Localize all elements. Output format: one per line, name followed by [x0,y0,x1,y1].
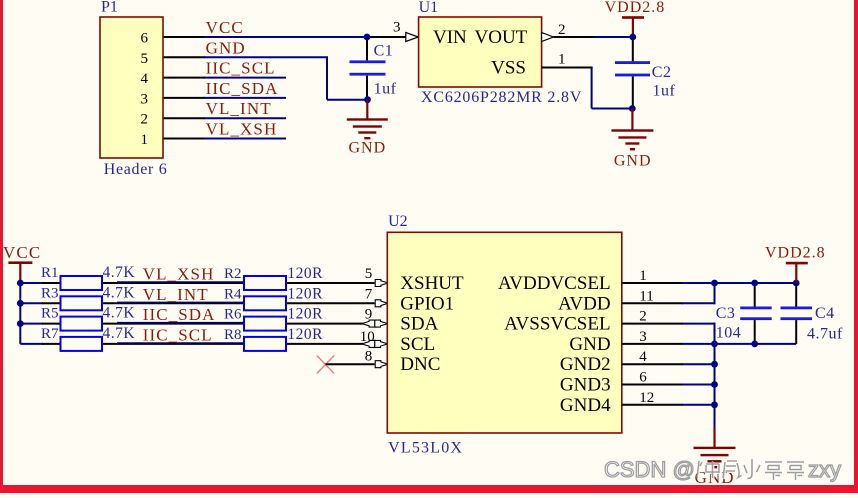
wire U2 pin2 AVSSVCSEL [622,323,715,325]
pin arrow out of U1 VOUT [542,33,554,42]
wire U2 pin3 GND rail [622,343,796,345]
svg-text:4: 4 [639,349,647,365]
svg-text:R8: R8 [224,327,242,343]
wire P1.4 IIC_SCL net [163,77,286,79]
svg-text:4.7K: 4.7K [103,305,136,322]
svg-text:1uf: 1uf [653,83,676,100]
svg-text:5: 5 [365,266,373,282]
frame right [854,0,858,493]
wire row2 VL_INT [20,302,374,303]
ground symbol bottom right [694,428,736,487]
capacitor C2 [615,37,676,109]
svg-text:VOUT: VOUT [475,27,528,48]
no connect X (DNC) [317,356,334,374]
wire AVDD up-bend to AVDDVCSEL rail [714,282,716,304]
svg-text:2: 2 [639,309,647,325]
svg-text:4.7K: 4.7K [103,284,136,301]
resistor R3 [41,285,102,310]
svg-text:5: 5 [141,51,149,67]
svg-text:VSS: VSS [491,58,526,79]
wire P1.3 IIC_SDA net [163,97,286,99]
svg-text:1: 1 [558,52,566,68]
svg-text:R3: R3 [41,285,59,301]
svg-text:C4: C4 [815,305,835,322]
svg-text:U2: U2 [388,213,408,230]
svg-text:P1: P1 [101,0,118,16]
svg-text:U1: U1 [419,0,439,16]
svg-text:3: 3 [639,329,647,345]
svg-text:VL_XSH: VL_XSH [206,120,278,139]
svg-text:3: 3 [141,91,149,107]
node junction rail row3 [17,320,24,327]
resistor R7 [41,326,102,351]
wire row4 IIC_SCL [20,343,363,344]
svg-text:7: 7 [365,286,373,302]
svg-text:11: 11 [639,288,653,304]
wire AVSSVCSEL down-bend to ground rail [714,323,716,429]
svg-text:VIN: VIN [433,27,467,48]
pin arrow U2 SDA (bidirectional) [362,320,388,327]
svg-text:R1: R1 [41,265,59,281]
capacitor C1 [350,37,397,100]
svg-text:XC6206P282MR 2.8V: XC6206P282MR 2.8V [421,89,582,106]
svg-text:AVDD: AVDD [558,293,610,314]
svg-text:2: 2 [141,112,149,128]
svg-text:VL53L0X: VL53L0X [388,440,463,457]
svg-text:4.7uf: 4.7uf [807,326,843,343]
pin arrow U2 SCL (bidirectional) [362,340,388,347]
svg-text:VL_INT: VL_INT [206,99,272,118]
svg-text:GND: GND [206,38,246,57]
svg-text:VL_INT: VL_INT [143,285,209,304]
wire P1.2 VL_INT net [163,117,286,119]
svg-text:XSHUT: XSHUT [400,273,464,294]
svg-text:GND: GND [569,334,610,355]
connector P1 [100,0,167,178]
svg-text:GPIO1: GPIO1 [400,293,454,314]
svg-text:IIC_SCL: IIC_SCL [143,325,213,344]
resistor R2 [224,266,286,290]
svg-text:VDD2.8: VDD2.8 [605,0,666,16]
svg-text:1: 1 [639,268,647,284]
pin arrow into U1 VIN [406,33,419,42]
svg-text:R2: R2 [224,266,242,282]
svg-text:R4: R4 [224,286,242,302]
svg-text:120R: 120R [287,306,323,323]
svg-text:DNC: DNC [400,354,440,375]
svg-text:2: 2 [558,22,566,38]
svg-text:C1: C1 [374,42,394,59]
node junction C2 bottom [629,105,636,112]
wire row5 DNC [325,363,374,365]
wire VCC rail vertical [19,283,21,344]
svg-text:C3: C3 [716,305,736,322]
node junction C1 top [364,34,371,41]
svg-text:VDD2.8: VDD2.8 [765,245,826,262]
node junction rail row1 [17,280,24,287]
svg-text:8: 8 [365,349,373,365]
wire VOUT to VDD2.8 [553,36,632,38]
node junction rail rows [711,280,718,409]
svg-text:3: 3 [393,19,401,35]
svg-text:SCL: SCL [400,334,435,355]
svg-text:C2: C2 [652,64,672,81]
svg-text:6: 6 [141,31,149,47]
svg-text:IIC_SDA: IIC_SDA [206,79,279,98]
svg-text:6: 6 [639,370,647,386]
wire U2 pin1 AVDDVCSEL [622,282,796,284]
svg-text:120R: 120R [287,285,323,302]
node junction C3 bottom [751,341,758,348]
resistor R6 [224,307,286,331]
svg-text:GND2: GND2 [560,354,611,375]
svg-text:AVDDVCSEL: AVDDVCSEL [498,273,611,294]
svg-text:VL_XSH: VL_XSH [143,265,215,284]
svg-text:4.7K: 4.7K [103,264,136,281]
svg-text:GND: GND [348,140,386,157]
power symbol VDD2.8 (top) [605,0,666,37]
IC U2 VL53L0X [387,213,622,457]
frame bottom [0,485,858,493]
resistor R4 [224,286,286,310]
pin arrow U2 DNC [375,361,388,368]
pin arrow U2 XSHUT [375,280,388,287]
wire U2 pin6 GND3 [622,384,715,386]
capacitor C3 [716,283,772,344]
wire row1 VL_XSH [20,282,374,283]
wire U2 pin12 GND4 [622,404,715,406]
wire row3 IIC_SDA [20,323,363,324]
pin arrow U2 GPIO1 [375,300,388,307]
resistor R1 [41,265,102,290]
resistor R5 [41,306,102,331]
svg-text:12: 12 [639,390,654,406]
svg-text:VCC: VCC [3,243,41,262]
ground symbol under C2 [611,109,653,170]
power symbol VDD2.8 (right) [765,245,826,283]
svg-text:IIC_SDA: IIC_SDA [143,305,216,324]
wire VSS to C2 bottom [542,67,633,109]
svg-text:VCC: VCC [206,18,244,37]
svg-text:120R: 120R [287,265,323,282]
svg-text:AVSSVCSEL: AVSSVCSEL [504,314,610,335]
node junction C1 bottom [364,96,371,103]
wire U2 pin11 AVDD [622,302,715,304]
svg-text:R5: R5 [41,306,59,322]
svg-text:GND: GND [614,153,652,170]
svg-text:4.7K: 4.7K [103,325,136,342]
svg-text:4: 4 [141,71,149,87]
regulator U1 [419,0,583,106]
node junction C2 top [629,34,636,41]
svg-text:Header 6: Header 6 [104,161,168,178]
node junction rail row2 [17,300,24,307]
wire P1.1 VL_XSH net [163,138,286,140]
capacitor C4 [781,283,844,344]
wire P1.5 GND net [163,56,368,99]
svg-text:104: 104 [716,325,742,342]
svg-text:1uf: 1uf [374,81,397,98]
svg-text:R7: R7 [41,326,59,342]
node junction C3 top [751,280,758,287]
svg-text:GND4: GND4 [560,395,611,416]
svg-text:IIC_SCL: IIC_SCL [206,59,276,78]
svg-text:SDA: SDA [400,314,438,335]
resistor R8 [224,327,286,351]
power symbol VCC (left) [3,243,41,283]
ground symbol under C1 [347,100,388,157]
frame left [0,0,3,493]
svg-text:GND3: GND3 [560,375,611,396]
node junction C4 top [793,280,800,287]
svg-text:120R: 120R [287,326,323,343]
wire U2 pin4 GND2 [622,363,715,365]
svg-text:R6: R6 [224,307,242,323]
wire P1.6 VCC net [163,36,406,38]
svg-text:1: 1 [141,132,149,148]
